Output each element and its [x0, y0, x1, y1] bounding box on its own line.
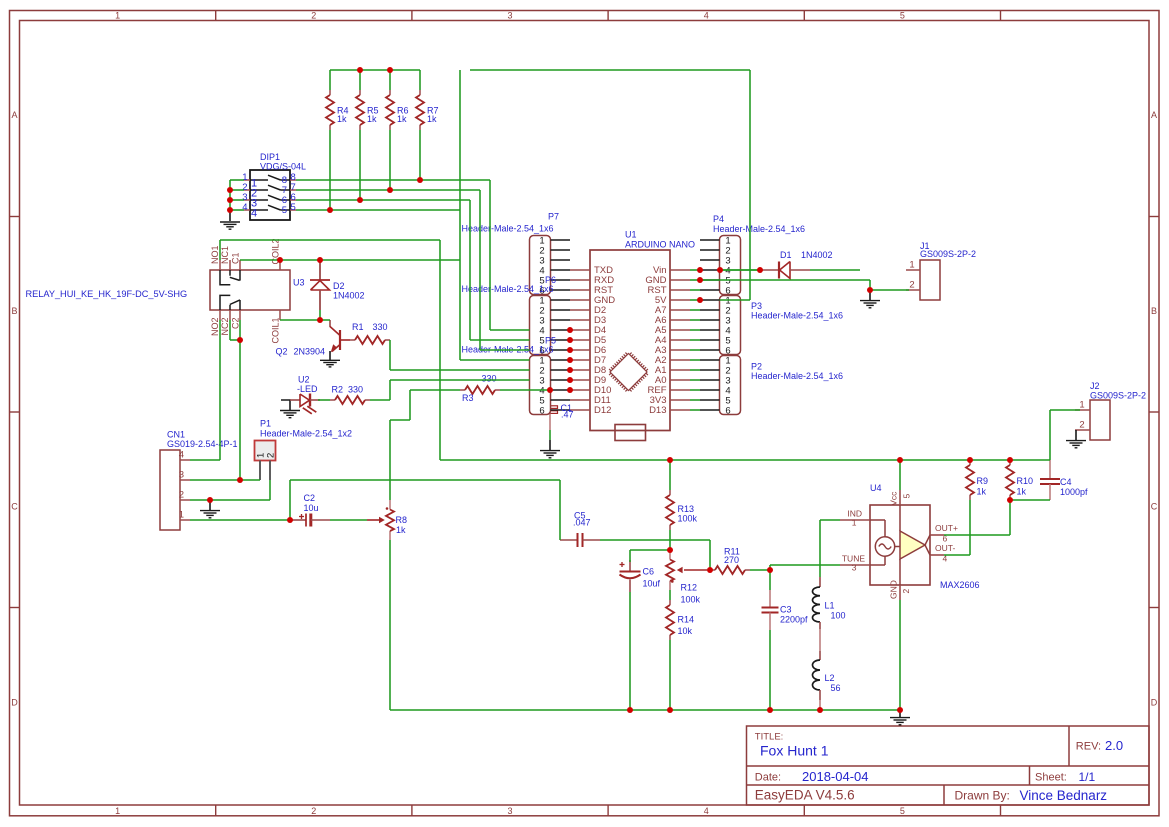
svg-text:GS009S-2P-2: GS009S-2P-2	[1090, 391, 1146, 401]
svg-text:1k: 1k	[427, 114, 437, 124]
svg-text:2: 2	[311, 10, 316, 20]
svg-text:Drawn By:: Drawn By:	[955, 789, 1010, 803]
svg-text:10uf: 10uf	[643, 579, 661, 589]
svg-text:R2: R2	[332, 384, 344, 394]
svg-text:2: 2	[1079, 420, 1084, 431]
svg-text:4: 4	[704, 806, 709, 816]
svg-text:R9: R9	[977, 476, 989, 486]
svg-text:10u: 10u	[304, 503, 319, 513]
svg-text:L2: L2	[825, 673, 835, 683]
svg-text:Header-Male-2.54_1x6: Header-Male-2.54_1x6	[751, 371, 843, 381]
svg-text:B: B	[1151, 306, 1157, 316]
svg-text:U1: U1	[625, 230, 637, 240]
svg-text:1: 1	[909, 260, 914, 271]
svg-text:3: 3	[852, 563, 857, 573]
svg-text:.047: .047	[573, 518, 591, 528]
svg-text:DIP1: DIP1	[260, 152, 280, 162]
svg-text:3: 3	[507, 806, 512, 816]
svg-text:Fox Hunt 1: Fox Hunt 1	[760, 743, 829, 759]
svg-text:B: B	[11, 306, 17, 316]
svg-text:J2: J2	[1090, 381, 1100, 391]
svg-text:TITLE:: TITLE:	[755, 732, 784, 743]
svg-text:REV:: REV:	[1076, 741, 1101, 753]
svg-text:C: C	[11, 502, 18, 512]
svg-text:GS009S-2P-2: GS009S-2P-2	[920, 249, 976, 259]
svg-text:C: C	[1151, 502, 1158, 512]
svg-text:1: 1	[115, 10, 120, 20]
svg-text:EasyEDA V4.5.6: EasyEDA V4.5.6	[755, 788, 855, 803]
svg-text:2: 2	[311, 806, 316, 816]
svg-text:1: 1	[1079, 400, 1084, 411]
svg-text:1k: 1k	[367, 114, 377, 124]
svg-text:R12: R12	[681, 583, 698, 593]
svg-text:100k: 100k	[678, 514, 698, 524]
svg-text:1/1: 1/1	[1079, 770, 1096, 784]
svg-text:3: 3	[179, 470, 184, 481]
svg-text:Q2: Q2	[276, 347, 288, 357]
svg-text:R3: R3	[462, 393, 474, 403]
svg-text:2018-04-04: 2018-04-04	[802, 769, 869, 784]
svg-text:C2: C2	[304, 493, 316, 503]
svg-text:ARDUINO NANO: ARDUINO NANO	[625, 240, 695, 250]
svg-text:Vcc: Vcc	[888, 491, 898, 506]
svg-text:P3: P3	[751, 301, 762, 311]
svg-text:MAX2606: MAX2606	[940, 580, 980, 590]
svg-text:2: 2	[909, 280, 914, 291]
svg-text:CN1: CN1	[167, 430, 185, 440]
svg-text:2N3904: 2N3904	[294, 347, 326, 357]
svg-text:C2: C2	[231, 318, 241, 330]
svg-text:D1: D1	[780, 250, 792, 260]
svg-text:NO1: NO1	[210, 245, 220, 264]
svg-text:10k: 10k	[678, 626, 693, 636]
svg-text:U3: U3	[293, 278, 305, 288]
svg-text:Header-Male-2.54_1x6: Header-Male-2.54_1x6	[713, 224, 805, 234]
svg-text:D12: D12	[594, 405, 611, 416]
svg-text:U2: U2	[298, 375, 310, 385]
svg-text:R13: R13	[678, 504, 695, 514]
svg-text:C1: C1	[231, 252, 241, 264]
svg-text:2.0: 2.0	[1105, 738, 1123, 753]
svg-text:2: 2	[901, 589, 911, 594]
svg-text:1k: 1k	[337, 114, 347, 124]
svg-text:4: 4	[179, 450, 184, 461]
svg-text:NC2: NC2	[220, 318, 230, 336]
svg-text:Header-Male-2.54_1x2: Header-Male-2.54_1x2	[260, 429, 352, 439]
svg-text:GND: GND	[888, 580, 898, 599]
svg-text:1: 1	[179, 510, 184, 521]
svg-text:D13: D13	[649, 405, 666, 416]
svg-text:1k: 1k	[977, 487, 987, 497]
svg-text:100k: 100k	[681, 595, 701, 605]
svg-text:6: 6	[725, 405, 730, 416]
svg-text:330: 330	[482, 374, 497, 384]
svg-text:5: 5	[282, 205, 287, 216]
svg-text:6: 6	[725, 345, 730, 356]
svg-text:1k: 1k	[396, 525, 406, 535]
svg-text:R1: R1	[352, 322, 364, 332]
svg-text:1k: 1k	[397, 114, 407, 124]
svg-text:330: 330	[373, 322, 388, 332]
svg-text:1000pf: 1000pf	[1060, 487, 1088, 497]
svg-text:1: 1	[852, 518, 857, 528]
svg-text:Sheet:: Sheet:	[1035, 772, 1067, 784]
svg-text:100: 100	[831, 611, 846, 621]
svg-text:R8: R8	[396, 515, 408, 525]
svg-text:D: D	[1151, 697, 1158, 707]
svg-text:R14: R14	[678, 615, 695, 625]
svg-text:A: A	[1151, 110, 1157, 120]
svg-text:1k: 1k	[1017, 487, 1027, 497]
svg-text:270: 270	[724, 555, 739, 565]
svg-text:2200pf: 2200pf	[780, 615, 808, 625]
svg-text:1: 1	[115, 806, 120, 816]
svg-text:5: 5	[900, 10, 905, 20]
svg-text:RELAY_HUI_KE_HK_19F-DC_5V-SHG: RELAY_HUI_KE_HK_19F-DC_5V-SHG	[26, 289, 188, 299]
svg-text:.47: .47	[561, 410, 574, 420]
svg-text:P2: P2	[751, 362, 762, 372]
svg-text:6: 6	[539, 405, 544, 416]
svg-text:4: 4	[251, 208, 257, 220]
svg-text:5: 5	[900, 806, 905, 816]
svg-text:6: 6	[725, 285, 730, 296]
svg-text:3: 3	[507, 10, 512, 20]
svg-text:Date:: Date:	[755, 772, 781, 784]
svg-text:D: D	[11, 697, 18, 707]
svg-text:1N4002: 1N4002	[333, 291, 365, 301]
svg-text:COIL1: COIL1	[271, 318, 281, 344]
svg-text:U4: U4	[870, 483, 882, 493]
svg-text:Vince Bednarz: Vince Bednarz	[1020, 788, 1108, 803]
svg-text:4: 4	[704, 10, 709, 20]
svg-text:Header-Male-2.54_1x6: Header-Male-2.54_1x6	[462, 284, 554, 294]
svg-text:C4: C4	[1060, 477, 1072, 487]
svg-text:NC1: NC1	[220, 246, 230, 264]
svg-text:Header-Male-2.54_1x6: Header-Male-2.54_1x6	[751, 311, 843, 321]
svg-text:D2: D2	[333, 281, 345, 291]
svg-text:NO2: NO2	[210, 318, 220, 337]
svg-text:OUT+: OUT+	[935, 523, 958, 533]
svg-text:56: 56	[831, 683, 841, 693]
svg-text:Header-Male-2.54_1x6: Header-Male-2.54_1x6	[462, 224, 554, 234]
svg-text:-LED: -LED	[297, 384, 318, 394]
svg-text:5: 5	[901, 494, 911, 499]
svg-text:P7: P7	[548, 212, 559, 222]
svg-text:5: 5	[291, 202, 296, 213]
svg-text:R10: R10	[1017, 476, 1034, 486]
svg-text:GS019-2.54-4P-1: GS019-2.54-4P-1	[167, 439, 238, 449]
svg-text:330: 330	[348, 384, 363, 394]
svg-text:VDG/S-04L: VDG/S-04L	[260, 162, 306, 172]
svg-text:L1: L1	[825, 601, 835, 611]
svg-text:2: 2	[266, 453, 277, 458]
svg-text:C6: C6	[643, 567, 655, 577]
svg-text:2: 2	[179, 490, 184, 501]
svg-text:1N4002: 1N4002	[801, 250, 833, 260]
svg-text:C3: C3	[780, 605, 792, 615]
svg-text:OUT-: OUT-	[935, 543, 955, 553]
svg-text:4: 4	[242, 202, 247, 213]
svg-text:P1: P1	[260, 419, 271, 429]
svg-text:P4: P4	[713, 214, 724, 224]
svg-text:A: A	[11, 110, 17, 120]
